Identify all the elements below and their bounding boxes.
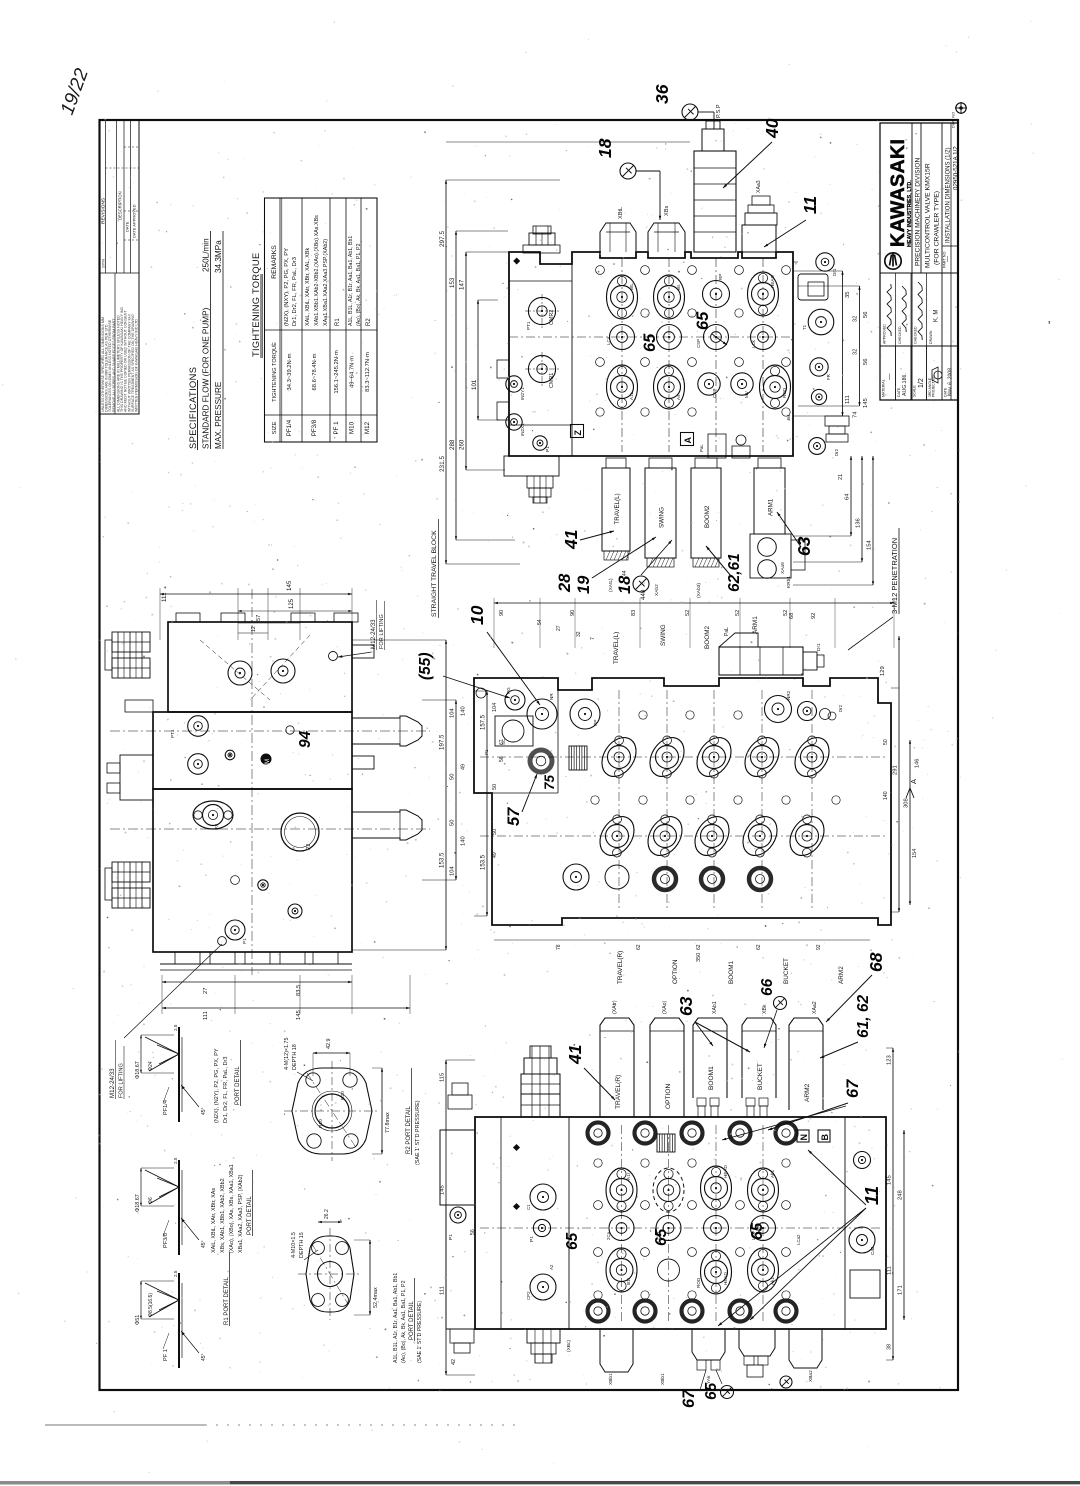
svg-text:R2 PORT DETAIL: R2 PORT DETAIL [406,1105,412,1154]
svg-text:ROD: ROD [782,387,787,398]
svg-text:PG: PG [506,687,511,694]
svg-text:27: 27 [556,625,562,631]
svg-text:TIGHTENING TORQUE: TIGHTENING TORQUE [251,253,261,357]
svg-text:27: 27 [203,988,209,994]
svg-text:XBs: XBs [664,206,670,216]
svg-text:N: N [799,1134,809,1141]
svg-text:65: 65 [564,1232,581,1250]
svg-text:R2: R2 [366,318,372,326]
svg-text:67: 67 [499,739,505,745]
svg-text:125: 125 [289,598,295,609]
svg-text:28: 28 [556,573,574,593]
svg-text:153.5: 153.5 [439,852,446,868]
svg-text:50: 50 [450,820,456,826]
svg-text:115: 115 [440,1073,446,1082]
svg-text:Dr1: Dr1 [816,643,822,651]
svg-text:83: 83 [631,610,637,616]
svg-text:145: 145 [286,580,293,591]
svg-text:M12-24/33: M12-24/33 [109,1068,116,1098]
svg-text:288: 288 [449,439,456,450]
svg-text:Φ6: Φ6 [148,1197,154,1204]
svg-text:PF3/8: PF3/8 [163,1233,169,1248]
svg-text:34.3MPa: 34.3MPa [214,240,223,273]
svg-text:—: — [886,373,893,380]
svg-text:(Ao), (Bo), Ak, Bk, Aa1, Ba1,: (Ao), (Bo), Ak, Bk, Aa1, Ba1, P1, P2 [356,243,362,326]
svg-text:SWING: SWING [658,507,665,528]
svg-text:02950-521A 1/2: 02950-521A 1/2 [953,146,960,190]
svg-text:NR2: NR2 [786,690,791,700]
svg-text:(N2X), (NXY), P2, PG, PX, PY: (N2X), (NXY), P2, PG, PX, PY [284,248,290,326]
svg-text:156.1~245.2N·m: 156.1~245.2N·m [334,350,340,394]
svg-text:HEAD: HEAD [770,275,775,288]
svg-text:ARM1: ARM1 [752,616,759,634]
svg-text:CSP: CSP [696,339,701,348]
svg-text:SIZE: SIZE [272,421,278,434]
svg-text:35: 35 [845,292,851,298]
svg-text:XBs, XAb1, XBb1, XAb2, XBb2: XBs, XAb1, XBb1, XAb2, XBb2 [220,1178,226,1253]
svg-text:DEPTH 18: DEPTH 18 [292,1044,298,1070]
svg-text:63: 63 [676,996,696,1016]
svg-text:XAa3: XAa3 [756,180,762,193]
svg-text:As: As [676,394,681,400]
svg-text:IN2Y1: IN2Y1 [520,387,525,400]
svg-text:REMOVE ALL BURRS AND SHARP EDG: REMOVE ALL BURRS AND SHARP EDGES FROM PA… [112,318,116,412]
svg-text:(XAtr): (XAtr) [612,1000,618,1014]
svg-text:PF1/4: PF1/4 [163,1100,169,1115]
svg-text:XBa2: XBa2 [808,1370,814,1382]
svg-text:111: 111 [203,1011,209,1020]
svg-text:104: 104 [450,866,456,876]
svg-text:XAb1: XAb1 [712,1001,718,1014]
svg-text:': ' [1048,318,1050,333]
svg-text:XAa2: XAa2 [812,1001,818,1014]
svg-text:CMR2: CMR2 [549,310,555,325]
svg-text:BUCKET: BUCKET [757,1063,764,1090]
svg-text:A: A [683,437,693,444]
svg-text:B: B [820,1134,830,1141]
svg-text:(XAo), (XBo), XAs, XBs, XAa1,: (XAo), (XBo), XAs, XBs, XAa1, XBa1 [229,1164,235,1253]
svg-text:171: 171 [898,1285,904,1295]
svg-text:Φ18.67: Φ18.67 [135,1194,141,1212]
svg-text:67: 67 [844,1079,862,1098]
svg-text:66: 66 [759,978,776,996]
svg-text:65: 65 [703,1382,720,1400]
svg-text:56: 56 [863,312,869,318]
svg-text:Dr2: Dr2 [834,448,839,456]
svg-text:68.6~78.4N·m: 68.6~78.4N·m [312,353,318,390]
svg-text:M10: M10 [349,421,356,434]
svg-text:2.5: 2.5 [173,1157,178,1164]
svg-text:Φ24: Φ24 [148,1061,154,1071]
svg-text:YAk: YAk [706,1375,712,1384]
svg-text:AUG.186.: AUG.186. [902,373,908,396]
svg-text:PORT DETAIL: PORT DETAIL [247,1196,253,1235]
svg-text:NR: NR [549,693,554,700]
svg-text:34.3~39.2N·m: 34.3~39.2N·m [287,353,293,390]
svg-text:TRAVEL(L): TRAVEL(L) [614,493,621,524]
svg-text:42.9: 42.9 [326,1039,332,1050]
svg-text:HEAD: HEAD [723,1165,728,1178]
svg-text:297.5: 297.5 [439,231,446,247]
svg-text:57: 57 [256,615,262,621]
svg-text:CHECKED: CHECKED [898,326,902,344]
svg-text:18: 18 [595,138,615,158]
svg-text:CP2: CP2 [526,1291,531,1300]
svg-text:83.3~112.7N·m: 83.3~112.7N·m [365,352,371,392]
svg-text:Dr2: Dr2 [838,704,843,712]
svg-text:248: 248 [898,1190,904,1200]
svg-text:INSTALLATION DIMENSIONS (1/2): INSTALLATION DIMENSIONS (1/2) [946,148,952,243]
svg-text:XBb1: XBb1 [660,1373,666,1385]
svg-text:PRECISION MACHINERY DIVISION: PRECISION MACHINERY DIVISION [915,158,922,266]
svg-text:M12: M12 [364,421,371,434]
svg-text:Dr1, Dr2, FL, FR, PaL, Dr3: Dr1, Dr2, FL, FR, PaL, Dr3 [223,1056,229,1123]
svg-text:92: 92 [811,613,817,619]
svg-text:Φ51: Φ51 [135,1315,141,1325]
svg-text:250L/min: 250L/min [202,238,211,272]
svg-text:94: 94 [297,730,314,748]
svg-text:123: 123 [887,1055,893,1065]
svg-text:44: 44 [622,570,628,576]
svg-text:153: 153 [449,277,456,288]
svg-text:11: 11 [800,196,820,214]
svg-text:P1: P1 [529,1236,535,1242]
svg-text:50: 50 [492,784,498,790]
svg-text:B4: B4 [786,414,791,420]
svg-text:TRAVEL(R): TRAVEL(R) [617,951,624,984]
svg-text:LCk: LCk [751,339,756,348]
svg-text:(Ao), (Bo), Ak, Bk, Aa1, Ba1,: (Ao), (Bo), Ak, Bk, Aa1, Ba1, P1, P2 [401,1280,407,1363]
svg-text:PT1: PT1 [170,729,175,738]
svg-text:(SAE 1′ ST’D PRESSURE): (SAE 1′ ST’D PRESSURE) [417,1301,423,1363]
svg-text:32: 32 [576,631,582,637]
svg-text:PaL: PaL [699,444,704,452]
svg-text:11: 11 [861,1186,882,1205]
svg-text:440: 440 [640,589,647,600]
svg-text:FR: FR [826,374,831,380]
svg-text:T1: T1 [802,324,807,330]
svg-text:52.4max: 52.4max [373,1287,379,1308]
svg-text:IN2X1: IN2X1 [520,423,525,436]
svg-text:P1: P1 [242,938,247,944]
svg-text:STRAIGHT TRAVEL BLOCK: STRAIGHT TRAVEL BLOCK [431,530,438,617]
svg-text:260: 260 [459,439,466,450]
svg-text:62: 62 [696,944,702,950]
svg-text:B1r: B1r [626,1277,631,1285]
svg-text:APPROVED: APPROVED [883,324,887,344]
svg-text:Φ18.67: Φ18.67 [135,1061,141,1079]
svg-text:HEAD: HEAD [723,1272,728,1285]
svg-text:(XAo): (XAo) [662,1000,668,1014]
svg-text:157.5: 157.5 [481,714,487,730]
svg-text:PORT DETAIL: PORT DETAIL [235,1066,241,1105]
svg-text:129: 129 [880,666,886,676]
svg-text:154: 154 [867,540,873,550]
svg-text:P2: P2 [306,844,312,850]
svg-text:XAa9: XAa9 [780,562,786,574]
svg-text:RP: RP [593,720,598,726]
svg-text:A1L: A1L [629,391,634,400]
svg-text:65: 65 [653,1228,670,1246]
svg-text:32: 32 [853,316,859,322]
svg-text:PORT DETAIL: PORT DETAIL [409,1301,415,1340]
svg-text:R1 PORT DETAIL: R1 PORT DETAIL [224,1276,230,1325]
svg-text:350: 350 [696,953,702,962]
svg-text:49~64.7N·m: 49~64.7N·m [350,356,356,388]
svg-text:TRAVEL(L): TRAVEL(L) [613,632,620,664]
svg-text:140: 140 [461,836,467,846]
svg-text:(XBc): (XBc) [566,1340,572,1352]
svg-text:291: 291 [893,765,899,775]
svg-text:42: 42 [451,1359,457,1365]
svg-text:4-M(12)×1.75: 4-M(12)×1.75 [284,1037,290,1070]
svg-text:231.5: 231.5 [439,456,446,472]
svg-text:50: 50 [450,774,456,780]
svg-text:26.2: 26.2 [324,1209,330,1219]
svg-text:145: 145 [296,1010,302,1020]
svg-text:ROD: ROD [696,1277,701,1288]
svg-text:50: 50 [883,739,889,745]
svg-text:Nov. 6. 2008: Nov. 6. 2008 [948,368,954,396]
svg-text:XBtL: XBtL [618,207,624,219]
svg-text:145: 145 [863,398,869,408]
svg-text:41: 41 [561,530,581,550]
svg-text:M12-24/33: M12-24/33 [370,619,377,649]
svg-text:ARM2: ARM2 [804,1083,811,1102]
svg-text:P1: P1 [545,446,551,452]
svg-text:XAa1.XBa1.XAa2.XAa3.PSP.(XAb2): XAa1.XBa1.XAa2.XAa3.PSP.(XAb2) [323,239,329,326]
svg-text:146: 146 [915,759,921,768]
svg-text:50: 50 [492,829,498,835]
svg-text:PF3/8: PF3/8 [311,419,318,436]
svg-text:P1: P1 [448,1234,454,1240]
svg-text:DESCRIPTION: DESCRIPTION [118,191,123,220]
svg-text:140: 140 [883,791,889,800]
svg-text:BUCKET: BUCKET [783,958,790,984]
svg-text:1/2: 1/2 [918,378,925,388]
svg-text:CMR1: CMR1 [549,373,555,388]
svg-text:154: 154 [912,849,918,858]
svg-text:XAb1.XBb1.XAb2-XBb2.(XAo).(XBo: XAb1.XBb1.XAb2-XBb2.(XAo).(XBo).XAs.XBs [314,215,320,326]
svg-text:PaL: PaL [724,627,730,636]
svg-text:ARM1: ARM1 [767,498,774,516]
svg-text:XAiL, XBiL, XAtr, XBtr, XAs: XAiL, XBiL, XAtr, XBtr, XAs [211,1188,217,1253]
svg-text:ARM2: ARM2 [838,966,845,984]
svg-text:56: 56 [499,756,505,762]
svg-text:74: 74 [853,411,859,418]
svg-text:P.S.P: P.S.P [716,104,722,118]
svg-text:104: 104 [492,703,498,712]
svg-text:49: 49 [461,764,467,770]
svg-text:DWG NO: DWG NO [952,112,956,128]
svg-text:90: 90 [499,610,505,616]
svg-text:18: 18 [616,575,634,594]
svg-text:65: 65 [749,1222,766,1240]
svg-text:153.5: 153.5 [481,854,487,870]
svg-text:145: 145 [440,1185,446,1195]
svg-text:(N2X), (N2Y), P2, PG, PX, PY: (N2X), (N2Y), P2, PG, PX, PY [214,1048,220,1123]
svg-text:CSP: CSP [712,389,717,398]
svg-text:147: 147 [459,279,466,290]
svg-text:77.8max: 77.8max [385,1112,391,1133]
svg-text:LCa2: LCa2 [796,1234,801,1245]
svg-text:SPECIFICATIONS: SPECIFICATIONS [188,367,198,449]
svg-text:OPTION: OPTION [665,1083,672,1109]
svg-text:M: M [265,759,271,764]
svg-text:FOR LIFTING: FOR LIFTING [379,614,385,649]
svg-text:MATERIAL: MATERIAL [882,379,886,397]
svg-text:2.5: 2.5 [173,1024,178,1031]
svg-text:C1: C1 [526,1204,531,1210]
svg-text:64: 64 [845,493,851,500]
svg-text:TIGHTENING TORQUE: TIGHTENING TORQUE [272,342,278,402]
svg-text:Φ8.5(16.5): Φ8.5(16.5) [148,1293,154,1317]
svg-text:4-M10×1.5: 4-M10×1.5 [291,1232,297,1258]
svg-text:63: 63 [794,536,814,556]
svg-text:111: 111 [845,395,851,404]
svg-text:101: 101 [471,379,478,390]
svg-text:FOR LIFTING: FOR LIFTING [119,1063,125,1098]
svg-text:MULTICONTROL VALVE KMX15R: MULTICONTROL VALVE KMX15R [925,163,932,268]
svg-text:41: 41 [565,1045,585,1065]
svg-text:WRITTEN PERMISSION OF KAWASAKI: WRITTEN PERMISSION OF KAWASAKI HEAVY IND… [135,319,139,412]
svg-text:TRAVEL(R): TRAVEL(R) [615,1075,622,1109]
svg-text:PF 1: PF 1 [333,421,340,435]
svg-text:PF1/4: PF1/4 [286,419,293,436]
svg-text:83.5: 83.5 [296,985,302,996]
svg-text:LCa: LCa [606,336,611,345]
svg-text:DATE APPROVED: DATE APPROVED [132,204,137,238]
svg-text:78: 78 [556,944,562,950]
svg-text:R1: R1 [335,318,341,326]
svg-text:197.5: 197.5 [439,734,446,750]
svg-text:BOOM1: BOOM1 [708,1066,715,1090]
svg-text:104: 104 [450,708,456,718]
svg-text:45°: 45° [201,1353,207,1361]
svg-text:45°: 45° [201,1107,207,1115]
svg-text:62: 62 [756,944,762,950]
svg-text:2Ca: 2Ca [606,1231,611,1240]
svg-text:PT1: PT1 [526,321,531,330]
svg-text:38: 38 [887,1344,893,1350]
svg-text:136: 136 [856,518,862,528]
svg-text:Dr1: Dr1 [832,268,837,276]
svg-text:RP: RP [718,274,723,280]
svg-text:BOOM1: BOOM1 [728,960,735,984]
svg-text:REVISIONS: REVISIONS [101,198,107,224]
svg-text:(XAtL): (XAtL) [608,578,614,592]
svg-text:XAb2: XAb2 [654,584,660,596]
svg-text:SYM: SYM [101,259,106,268]
svg-text:DRAWN: DRAWN [929,330,933,344]
svg-text:111: 111 [161,592,168,602]
svg-text:67: 67 [680,1389,698,1408]
svg-text:Ab1: Ab1 [770,1169,775,1178]
svg-text:2.5: 2.5 [173,1270,178,1277]
svg-text:56: 56 [470,1229,476,1235]
svg-text:—: — [946,256,952,262]
svg-text:62: 62 [636,944,642,950]
svg-text:HEAVY INDUSTRIES, LTD.: HEAVY INDUSTRIES, LTD. [907,180,913,247]
svg-text:A2: A2 [549,1264,554,1270]
svg-text:308: 308 [904,798,910,808]
svg-text:P1: P1 [484,749,489,755]
svg-text:BOOM2: BOOM2 [704,505,711,528]
svg-text:(FOR CRAWLER TYPE): (FOR CRAWLER TYPE) [934,191,941,265]
svg-text:92: 92 [816,944,822,950]
svg-text:REMARKS: REMARKS [271,245,278,279]
svg-text:R10: R10 [318,1119,324,1128]
svg-text:DATE: DATE [897,387,901,397]
svg-text:10: 10 [467,605,487,625]
svg-text:SWING: SWING [660,624,667,646]
svg-text:Bs: Bs [676,284,681,290]
svg-text:K. M: K. M [934,310,940,322]
svg-text:145: 145 [887,1175,893,1185]
svg-text:XBk: XBk [762,1004,768,1014]
svg-text:75: 75 [542,774,557,790]
svg-text:R20: R20 [340,1091,346,1100]
svg-text:XAiL, XBiL, XAtr, XBtr, XAL, X: XAiL, XBiL, XAtr, XBtr, XAL, XBk [305,247,311,326]
svg-text:PF 1: PF 1 [163,1349,169,1361]
svg-text:61, 62: 61, 62 [855,995,872,1038]
svg-text:36: 36 [652,84,672,104]
svg-text:KAWASAKI: KAWASAKI [887,139,909,247]
svg-text:OPTION: OPTION [672,959,679,984]
svg-text:A1L, B1L, A1r, B1r, Aa1, Ba1,: A1L, B1L, A1r, B1r, Aa1, Ba1, Ab1, Bb1 [348,236,354,326]
svg-text:Z: Z [573,430,583,436]
svg-text:Ca2: Ca2 [870,1246,875,1255]
svg-text:DATE: DATE [125,221,130,232]
svg-text:19: 19 [575,575,593,594]
svg-text:140: 140 [461,706,467,716]
svg-text:45°: 45° [201,1240,207,1248]
svg-text:CHECKED: CHECKED [914,326,918,344]
svg-text:32: 32 [853,349,859,355]
svg-text:111: 111 [887,1266,893,1275]
svg-text:DEPTH 15: DEPTH 15 [299,1232,305,1258]
svg-text:65: 65 [641,333,659,352]
svg-text:MV: MV [744,390,749,398]
svg-text:40: 40 [762,118,782,139]
svg-text:SCALE: SCALE [913,385,917,397]
svg-text:XBa1, XAa2, XAa3, PSP, (XAb2): XBa1, XAa2, XAa3, PSP, (XAb2) [238,1174,244,1253]
svg-text:68: 68 [866,952,886,972]
svg-text:A1r: A1r [626,1172,631,1180]
svg-text:BtL: BtL [629,283,634,290]
svg-text:BOOM2: BOOM2 [704,625,711,649]
svg-text:STANDARD FLOW (FOR ONE PUMP): STANDARD FLOW (FOR ONE PUMP) [202,307,211,449]
svg-text:XBb1: XBb1 [608,1373,614,1385]
svg-text:A: A [909,779,918,784]
svg-text:21: 21 [838,474,844,480]
svg-text:MAX. PRESSURE: MAX. PRESSURE [214,381,223,449]
svg-text:111: 111 [440,1286,446,1295]
svg-text:49: 49 [492,852,498,858]
svg-text:56: 56 [863,359,869,365]
svg-text:(55): (55) [417,652,434,680]
svg-text:65: 65 [694,311,712,330]
svg-text:A1L, B1L, A1r, B1r, Aa1, Ba1,: A1L, B1L, A1r, B1r, Aa1, Ba1, Ab1, Bb1 [393,1273,399,1363]
svg-text:KRb1: KRb1 [786,576,792,588]
svg-text:7: 7 [590,637,596,640]
